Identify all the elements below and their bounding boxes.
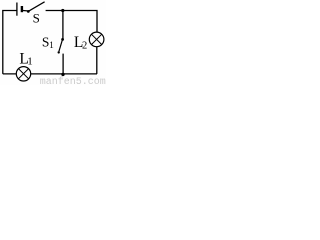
- battery short plate (negative): [21, 6, 23, 12]
- svg-text:2: 2: [82, 40, 87, 51]
- wire: bottom segment: [3, 73, 97, 75]
- svg-text:1: 1: [27, 55, 33, 67]
- junction node dot (top of middle branch): [61, 9, 64, 12]
- junction node dot (bottom of middle branch): [61, 73, 64, 76]
- svg-text:manfen5.com: manfen5.com: [40, 76, 106, 85]
- svg-text:1: 1: [49, 40, 54, 50]
- svg-text:S: S: [33, 11, 40, 26]
- wire: top-right segment from switch to right corner: [46, 11, 97, 33]
- wire: battery to switch S: [23, 10, 28, 12]
- wire: middle branch lower: [62, 54, 64, 74]
- wire: middle branch upper: [62, 11, 64, 40]
- lamp L1 (circle with X): [16, 67, 30, 81]
- switch S1 blade (open, angled down-left): [59, 40, 62, 51]
- battery long plate (positive): [16, 3, 18, 16]
- switch S1 bottom terminal dot: [58, 51, 60, 53]
- wire: right branch lower: [96, 47, 98, 74]
- wire: top-left segment from left corner to battery: [3, 11, 17, 74]
- switch S left terminal dot: [27, 10, 30, 13]
- switch S blade (open, angled up-right): [29, 2, 44, 11]
- switch S1 top terminal dot: [61, 38, 64, 41]
- lamp L2 (circle with X): [89, 32, 104, 47]
